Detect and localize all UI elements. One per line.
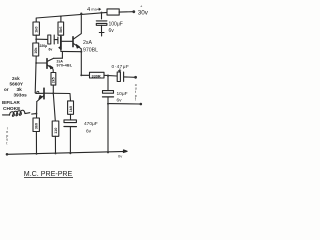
svg-text:970BL: 970BL [83,48,98,54]
svg-text:10μF: 10μF [117,91,128,97]
svg-text:30v: 30v [138,10,149,17]
svg-text:100μF: 100μF [109,22,123,28]
svg-text:+: + [140,4,143,9]
svg-text:2k5: 2k5 [52,77,56,83]
svg-text:6v: 6v [49,47,53,51]
svg-text:1k0: 1k0 [35,26,39,32]
svg-text:10k: 10k [34,47,38,54]
svg-text:M.C. PRE-PRE: M.C. PRE-PRE [24,169,73,178]
svg-text:470μF: 470μF [84,121,98,127]
svg-text:0v: 0v [118,154,122,159]
svg-text:5k6: 5k6 [59,26,63,32]
svg-text:CHOKE: CHOKE [3,106,21,112]
svg-text:110: 110 [54,128,58,134]
svg-text:ma: ma [91,7,97,11]
svg-text:6v: 6v [109,28,115,34]
svg-text:BIFILAR: BIFILAR [2,100,20,105]
svg-text:393os: 393os [14,93,28,98]
svg-text:t: t [135,97,136,101]
svg-text:or: or [4,87,9,92]
svg-text:220μ: 220μ [40,44,48,48]
svg-text:1k0: 1k0 [69,106,73,112]
svg-text:2sA: 2sA [83,40,92,46]
svg-text:6v: 6v [117,98,123,104]
svg-text:t: t [6,141,7,145]
svg-text:2sk: 2sk [12,76,20,81]
svg-text:5660Y: 5660Y [10,81,24,86]
svg-text:970•4BL: 970•4BL [57,64,73,68]
svg-text:360: 360 [35,123,39,129]
svg-text:330R: 330R [92,74,101,78]
svg-text:6v: 6v [86,129,92,135]
